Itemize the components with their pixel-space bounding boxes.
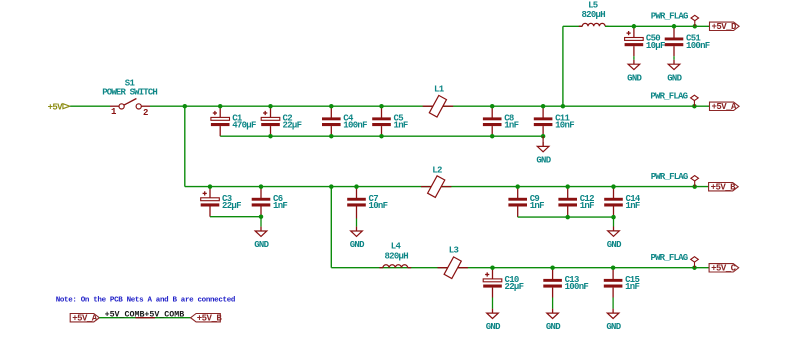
junction bbox=[565, 184, 570, 189]
junction bbox=[611, 184, 616, 189]
global label +5V_C bbox=[709, 264, 739, 274]
svg-text:+5V_COMB: +5V_COMB bbox=[105, 311, 145, 320]
svg-text:1: 1 bbox=[111, 107, 117, 117]
ground bbox=[536, 142, 551, 166]
junction bbox=[218, 104, 223, 109]
svg-text:1nF: 1nF bbox=[394, 121, 408, 131]
ground bbox=[607, 227, 622, 251]
global label +5V_D bbox=[710, 22, 740, 32]
capacitor C6 bbox=[252, 187, 288, 217]
svg-text:GND: GND bbox=[606, 322, 621, 332]
svg-text:+5V_C: +5V_C bbox=[711, 264, 737, 274]
svg-text:PWR_FLAG: PWR_FLAG bbox=[651, 172, 688, 182]
wire bbox=[99, 317, 190, 319]
svg-text:+5V_B: +5V_B bbox=[711, 183, 737, 193]
wire bbox=[518, 216, 614, 218]
svg-text:+5V: +5V bbox=[48, 102, 64, 112]
wire bbox=[184, 106, 186, 186]
svg-text:100nF: 100nF bbox=[686, 41, 710, 51]
wire bbox=[356, 219, 358, 227]
junction bbox=[329, 184, 334, 189]
wire bbox=[260, 217, 262, 227]
svg-text:100nF: 100nF bbox=[343, 121, 367, 131]
svg-text:10µF: 10µF bbox=[646, 41, 665, 51]
svg-text:+5V_B: +5V_B bbox=[197, 314, 223, 324]
switch S1 bbox=[102, 79, 157, 119]
svg-text:L2: L2 bbox=[432, 165, 442, 175]
junction bbox=[329, 104, 334, 109]
capacitor C7 bbox=[347, 187, 387, 219]
capacitor C10 bbox=[483, 268, 523, 298]
svg-text:POWER SWITCH: POWER SWITCH bbox=[102, 88, 157, 98]
junction bbox=[672, 24, 677, 29]
capacitor C14 bbox=[604, 187, 641, 218]
ground bbox=[254, 227, 269, 251]
svg-text:GND: GND bbox=[607, 240, 622, 250]
svg-text:470µF: 470µF bbox=[232, 121, 256, 131]
junction bbox=[259, 214, 264, 219]
wire bbox=[612, 298, 614, 309]
inductor L2 bbox=[421, 165, 451, 197]
wire bbox=[185, 186, 709, 188]
junction bbox=[259, 184, 264, 189]
global label +5V_A (note) bbox=[70, 314, 99, 324]
svg-text:1nF: 1nF bbox=[626, 201, 640, 211]
label L5 bbox=[581, 0, 605, 19]
inductor L4 bbox=[379, 265, 411, 268]
capacitor C9 bbox=[508, 187, 544, 218]
ground bbox=[350, 227, 365, 251]
junction bbox=[541, 134, 546, 139]
wire bbox=[330, 187, 332, 268]
net label +5V_COMB bbox=[144, 311, 184, 320]
ground bbox=[546, 309, 561, 333]
svg-text:GND: GND bbox=[627, 73, 642, 83]
ground bbox=[627, 60, 642, 84]
hierarchical label +5V bbox=[48, 102, 70, 112]
svg-text:L1: L1 bbox=[434, 84, 445, 94]
capacitor C11 bbox=[534, 106, 574, 136]
note text bbox=[56, 297, 235, 305]
svg-text:GND: GND bbox=[350, 240, 365, 250]
capacitor C50 bbox=[625, 26, 665, 56]
ground bbox=[486, 309, 501, 333]
svg-text:GND: GND bbox=[486, 322, 501, 332]
svg-text:1nF: 1nF bbox=[530, 201, 544, 211]
wire bbox=[673, 56, 675, 60]
power flag PWR_FLAG bbox=[651, 12, 699, 27]
svg-text:10nF: 10nF bbox=[369, 201, 388, 211]
svg-text:PWR_FLAG: PWR_FLAG bbox=[650, 253, 687, 263]
inductor L3 bbox=[438, 246, 468, 279]
wire bbox=[605, 25, 709, 27]
net label +5V_COMB bbox=[105, 311, 145, 320]
junction bbox=[490, 265, 495, 270]
wire bbox=[70, 105, 110, 107]
wire bbox=[492, 298, 494, 309]
ground bbox=[606, 309, 621, 333]
svg-text:GND: GND bbox=[546, 322, 561, 332]
junction bbox=[692, 184, 697, 189]
svg-text:L3: L3 bbox=[449, 246, 459, 256]
svg-text:1nF: 1nF bbox=[273, 201, 287, 211]
junction bbox=[268, 134, 273, 139]
junction bbox=[565, 215, 570, 220]
junction bbox=[561, 104, 566, 109]
capacitor C1 bbox=[211, 106, 256, 136]
wire bbox=[542, 136, 544, 146]
junction bbox=[550, 265, 555, 270]
svg-text:1nF: 1nF bbox=[625, 282, 639, 292]
global label +5V_A bbox=[710, 102, 740, 112]
svg-text:PWR_FLAG: PWR_FLAG bbox=[650, 92, 687, 102]
svg-text:+5V_A: +5V_A bbox=[72, 314, 98, 324]
svg-text:+5V_COMB: +5V_COMB bbox=[144, 311, 184, 320]
power flag PWR_FLAG bbox=[650, 253, 698, 268]
wire bbox=[613, 217, 615, 226]
junction bbox=[354, 184, 359, 189]
global label +5V_B (note) bbox=[191, 314, 223, 324]
junction bbox=[183, 104, 188, 109]
junction bbox=[379, 104, 384, 109]
wire bbox=[633, 56, 635, 60]
junction bbox=[692, 104, 697, 109]
svg-text:1nF: 1nF bbox=[504, 121, 518, 131]
junction bbox=[692, 265, 697, 270]
capacitor C5 bbox=[372, 106, 408, 136]
wire bbox=[563, 25, 582, 27]
wire bbox=[562, 26, 564, 106]
junction bbox=[208, 184, 213, 189]
capacitor C15 bbox=[604, 268, 640, 298]
svg-text:GND: GND bbox=[667, 73, 682, 83]
junction bbox=[611, 265, 616, 270]
svg-text:+5V_A: +5V_A bbox=[712, 102, 738, 112]
svg-text:+5V_D: +5V_D bbox=[712, 22, 738, 32]
wire bbox=[150, 105, 710, 107]
wire bbox=[136, 317, 156, 319]
junction bbox=[268, 104, 273, 109]
svg-text:GND: GND bbox=[254, 240, 269, 250]
svg-text:22µF: 22µF bbox=[283, 121, 302, 131]
svg-text:10nF: 10nF bbox=[555, 121, 574, 131]
junction bbox=[329, 134, 334, 139]
svg-text:820µH: 820µH bbox=[384, 251, 408, 261]
svg-text:100nF: 100nF bbox=[565, 282, 589, 292]
inductor L1 bbox=[423, 84, 453, 117]
wire bbox=[220, 135, 543, 137]
capacitor C8 bbox=[483, 106, 519, 136]
svg-text:GND: GND bbox=[536, 156, 551, 166]
junction bbox=[632, 24, 637, 29]
junction bbox=[693, 24, 698, 29]
svg-text:22µF: 22µF bbox=[222, 201, 241, 211]
wire bbox=[210, 216, 261, 218]
power flag PWR_FLAG bbox=[650, 92, 698, 107]
ground bbox=[667, 60, 682, 84]
inductor L5 bbox=[579, 23, 609, 26]
capacitor C51 bbox=[665, 26, 710, 56]
junction bbox=[490, 134, 495, 139]
svg-text:22µF: 22µF bbox=[505, 282, 524, 292]
svg-text:820µH: 820µH bbox=[581, 10, 605, 20]
capacitor C2 bbox=[261, 106, 301, 136]
svg-text:Note: On the PCB Nets A and B: Note: On the PCB Nets A and B are connec… bbox=[56, 297, 235, 305]
svg-text:2: 2 bbox=[143, 108, 148, 118]
junction bbox=[515, 184, 520, 189]
capacitor C12 bbox=[558, 187, 594, 218]
junction bbox=[541, 104, 546, 109]
capacitor C3 bbox=[201, 187, 241, 217]
junction bbox=[490, 104, 495, 109]
svg-text:L4: L4 bbox=[391, 241, 402, 251]
svg-text:PWR_FLAG: PWR_FLAG bbox=[651, 12, 688, 22]
capacitor C13 bbox=[543, 268, 588, 298]
capacitor C4 bbox=[322, 106, 367, 136]
wire bbox=[331, 267, 709, 269]
junction bbox=[379, 134, 384, 139]
label L4 bbox=[384, 241, 408, 261]
power flag PWR_FLAG bbox=[651, 172, 699, 187]
junction bbox=[611, 215, 616, 220]
wire bbox=[552, 298, 554, 309]
svg-text:1nF: 1nF bbox=[580, 201, 594, 211]
global label +5V_B bbox=[709, 183, 739, 193]
